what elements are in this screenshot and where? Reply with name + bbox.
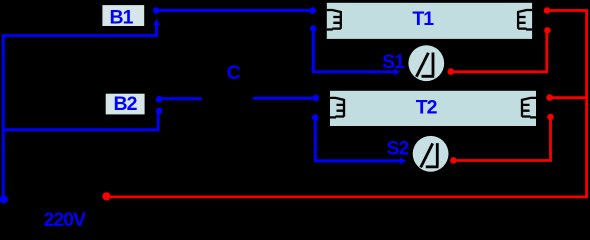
wire: S1 right to T1 right bottom pin	[453, 33, 547, 72]
wire: T1 left bottom pin down and right to S1	[313, 31, 395, 72]
svg-text:C: C	[227, 62, 241, 84]
node T2 right bottom pin	[547, 114, 554, 121]
svg-text:B2: B2	[114, 93, 138, 115]
filament T2 right	[522, 98, 536, 118]
node S1 right terminal dot	[448, 68, 455, 75]
svg-text:B1: B1	[110, 6, 134, 28]
svg-text:220V: 220V	[44, 209, 87, 231]
arrow into S2 left terminal	[400, 158, 406, 165]
node T1 left bottom pin	[310, 25, 317, 32]
node T2 right top pin	[546, 94, 553, 101]
svg-text:T2: T2	[416, 96, 438, 118]
wire: phase left vertical	[2, 34, 5, 196]
wire: lower horizontal to B2	[2, 114, 158, 130]
node T1 right top pin	[544, 7, 551, 14]
node T2 left top pin	[312, 95, 319, 102]
starter S1	[408, 45, 444, 81]
filament T1 left	[327, 10, 341, 30]
starter S2	[413, 136, 449, 172]
tube T2	[330, 91, 536, 126]
node T1 right bottom pin	[544, 27, 551, 34]
arrow into S1 left terminal	[394, 68, 400, 75]
node B1 output dot	[153, 7, 160, 14]
tube T1	[327, 3, 532, 39]
wire: B2 to capacitor C left lead	[162, 97, 202, 100]
node neutral terminal dot 220V	[102, 192, 110, 200]
wire: top horizontal to B1	[2, 25, 157, 36]
filament T1 right	[518, 10, 532, 30]
wire: neutral from T1 right top pin, right vertical, bottom horizontal	[108, 11, 587, 197]
node T1 left top pin	[309, 7, 316, 14]
filament T2 left	[330, 98, 344, 118]
wire: T2 right bottom pin down and left to S2 right	[456, 119, 551, 161]
node phase terminal dot 220V	[0, 195, 8, 203]
arrow into B1 lower terminal	[153, 19, 160, 25]
svg-text:S2: S2	[387, 138, 410, 160]
wire: branch to T2 right top pin	[552, 96, 586, 99]
wire: B1 to T1 left top pin	[159, 9, 311, 12]
node T2 left bottom pin	[312, 114, 319, 121]
node B2 lower terminal dot	[156, 108, 163, 115]
ballast B2	[106, 94, 145, 115]
wire: T2 left bottom pin down and right to S2	[315, 120, 401, 161]
svg-text:S1: S1	[382, 51, 405, 73]
node S2 right terminal dot	[450, 157, 457, 164]
svg-text:T1: T1	[412, 8, 434, 30]
ballast B1	[102, 5, 144, 26]
node B2 output dot	[156, 96, 163, 103]
wire: capacitor C right lead to T2 left top pin	[253, 97, 313, 100]
